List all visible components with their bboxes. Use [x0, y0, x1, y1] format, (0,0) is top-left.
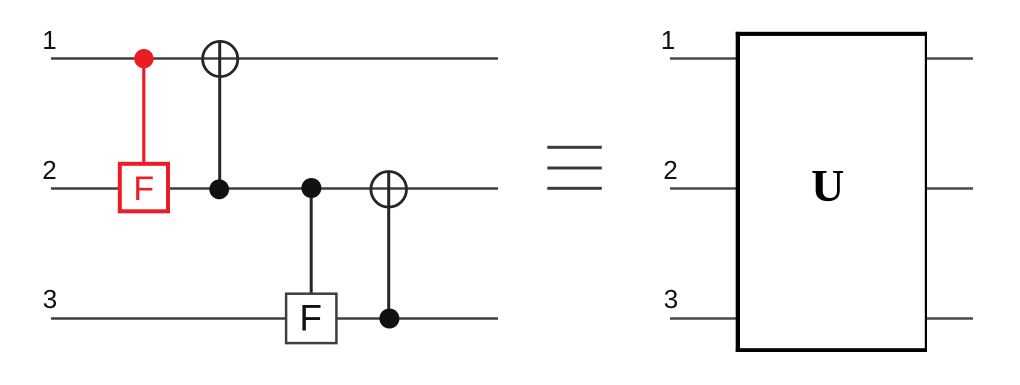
svg-text:2: 2	[663, 155, 677, 185]
CNOT link wire (target on 2, control on 3)	[387, 171, 390, 319]
svg-text:2: 2	[42, 155, 56, 185]
equivalence symbol bar 3	[547, 187, 602, 190]
unitary box U bottom border	[736, 348, 927, 352]
output stub wire 1	[927, 57, 973, 60]
control dot C2 on wire 2	[301, 178, 321, 198]
wire qubit 3	[51, 317, 498, 320]
red control dot on wire 1	[134, 49, 153, 68]
input stub wire 3	[670, 317, 737, 320]
control dot C1 on wire 2	[209, 179, 229, 199]
wire qubit 2	[51, 187, 498, 190]
svg-text:1: 1	[42, 25, 56, 55]
equivalence symbol bar 2	[547, 167, 602, 170]
svg-text:1: 1	[661, 25, 675, 55]
control link wire (control on 2, F on 3)	[310, 188, 313, 293]
wire qubit 1	[51, 57, 498, 60]
equivalence symbol bar 1	[547, 146, 602, 149]
svg-text:F: F	[133, 170, 154, 208]
unitary box U top border	[736, 32, 927, 36]
control dot C3 on wire 3	[379, 309, 399, 329]
CNOT link wire (target on 1, control on 2)	[218, 40, 221, 189]
output stub wire 2	[927, 187, 973, 190]
output stub wire 3	[927, 317, 973, 320]
controlled-F gate box (black) on wire 3	[286, 294, 336, 343]
CNOT target on wire 1	[203, 41, 238, 76]
CNOT target on wire 2	[371, 172, 407, 208]
unitary box U left border	[736, 32, 740, 352]
input stub wire 1	[670, 57, 737, 60]
svg-text:F: F	[299, 298, 322, 339]
svg-text:3: 3	[664, 284, 678, 314]
svg-text:3: 3	[43, 284, 57, 314]
red control link wire	[142, 59, 145, 164]
svg-text:U: U	[811, 160, 844, 211]
controlled-F gate box (red) on wire 2	[120, 164, 168, 212]
unitary box U right border	[925, 32, 927, 352]
input stub wire 2	[670, 187, 737, 190]
